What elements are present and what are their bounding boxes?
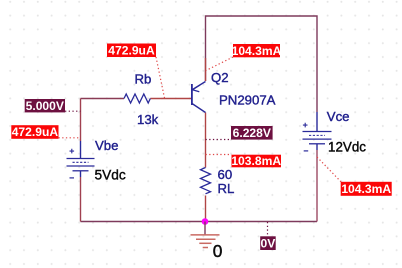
svg-text:104.3mA: 104.3mA xyxy=(341,182,391,196)
svg-text:5Vdc: 5Vdc xyxy=(95,168,126,183)
svg-text:Rb: Rb xyxy=(135,71,152,86)
battery V2 Vce xyxy=(303,112,332,151)
svg-text:Vce: Vce xyxy=(327,109,350,124)
wire bottom rail xyxy=(81,221,318,223)
probe label 104.3mA (emitter current, top) xyxy=(206,44,282,71)
battery V1 Vbe xyxy=(67,141,95,178)
svg-text:Q2: Q2 xyxy=(211,70,229,85)
wire RL to ground rail xyxy=(205,196,207,222)
transistor Q2 xyxy=(192,82,206,113)
svg-text:472.9uA: 472.9uA xyxy=(108,43,155,57)
probe label 5.000V xyxy=(25,99,81,113)
svg-text:12Vdc: 12Vdc xyxy=(328,139,366,154)
svg-text:Vbe: Vbe xyxy=(95,138,118,153)
wire Rb to base xyxy=(150,98,191,100)
junction node dot xyxy=(202,218,209,225)
svg-text:60: 60 xyxy=(218,167,233,182)
ground 0 xyxy=(191,222,220,248)
wire left vertical top (Vbe+ to Rb) xyxy=(80,99,82,142)
svg-text:PN2907A: PN2907A xyxy=(219,93,276,108)
wire Vbe bottom vertical xyxy=(80,177,82,222)
svg-text:0: 0 xyxy=(213,241,223,261)
svg-text:472.9uA: 472.9uA xyxy=(12,125,59,139)
svg-text:0V: 0V xyxy=(261,236,276,250)
svg-text:103.8mA: 103.8mA xyxy=(231,154,281,168)
svg-text:6.228V: 6.228V xyxy=(233,126,271,140)
resistor RL xyxy=(201,168,211,194)
wire Vce bottom vertical xyxy=(316,150,318,222)
wire top rail (emitter net to Vce+) xyxy=(206,16,318,112)
probe label 472.9uA (base current, top) xyxy=(107,43,165,98)
wire collector to RL xyxy=(205,113,207,168)
wire emitter vertical red segment xyxy=(205,58,207,81)
svg-text:13k: 13k xyxy=(137,112,159,127)
probe label 103.8mA xyxy=(206,154,282,168)
probe label 0V xyxy=(260,222,276,250)
svg-text:5.000V: 5.000V xyxy=(26,99,64,113)
probe label 104.3mA (bottom right) xyxy=(317,157,392,196)
probe label 472.9uA (left) xyxy=(11,125,80,139)
wire left horizontal to Rb xyxy=(81,98,125,100)
resistor Rb xyxy=(124,94,150,103)
svg-text:RL: RL xyxy=(218,181,235,196)
probe label 6.228V xyxy=(206,126,273,140)
svg-text:104.3mA: 104.3mA xyxy=(232,44,282,58)
